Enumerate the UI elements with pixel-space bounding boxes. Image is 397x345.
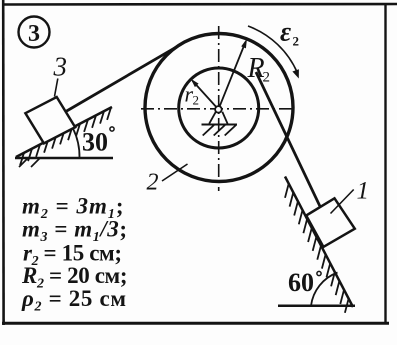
R2 arrow	[218, 42, 245, 109]
right incline surface line	[285, 177, 353, 308]
pivot circle	[215, 106, 222, 113]
frame bottom border	[2, 322, 389, 325]
label 1 leader	[331, 190, 354, 214]
vertical centerline	[218, 26, 220, 191]
30 degree arc	[73, 129, 80, 159]
pivot hatching	[203, 125, 236, 136]
label 2 leader	[162, 164, 188, 181]
pivot support legs	[209, 112, 227, 124]
block 1 (right)	[306, 198, 355, 247]
right rope	[256, 72, 320, 207]
pulley outer circle	[145, 34, 293, 182]
left ground line	[15, 157, 113, 160]
block 3 (left)	[25, 97, 75, 143]
label 3 leader	[55, 79, 58, 97]
problem number circle	[19, 17, 50, 48]
r2 arrow	[193, 81, 219, 110]
left ground hatch	[19, 158, 40, 167]
left incline surface line	[16, 107, 112, 157]
frame left border	[2, 0, 5, 325]
left rope	[66, 44, 181, 111]
frame top border	[2, 3, 397, 6]
horizontal centerline	[141, 108, 296, 110]
pulley inner circle	[179, 68, 259, 148]
left incline hatching	[20, 108, 111, 166]
60 degree arc	[311, 273, 338, 306]
pivot ground line	[202, 124, 238, 126]
frame right border	[384, 4, 386, 324]
epsilon2 arc	[248, 26, 298, 73]
right ground line	[278, 305, 355, 308]
right incline hatching	[285, 184, 349, 313]
